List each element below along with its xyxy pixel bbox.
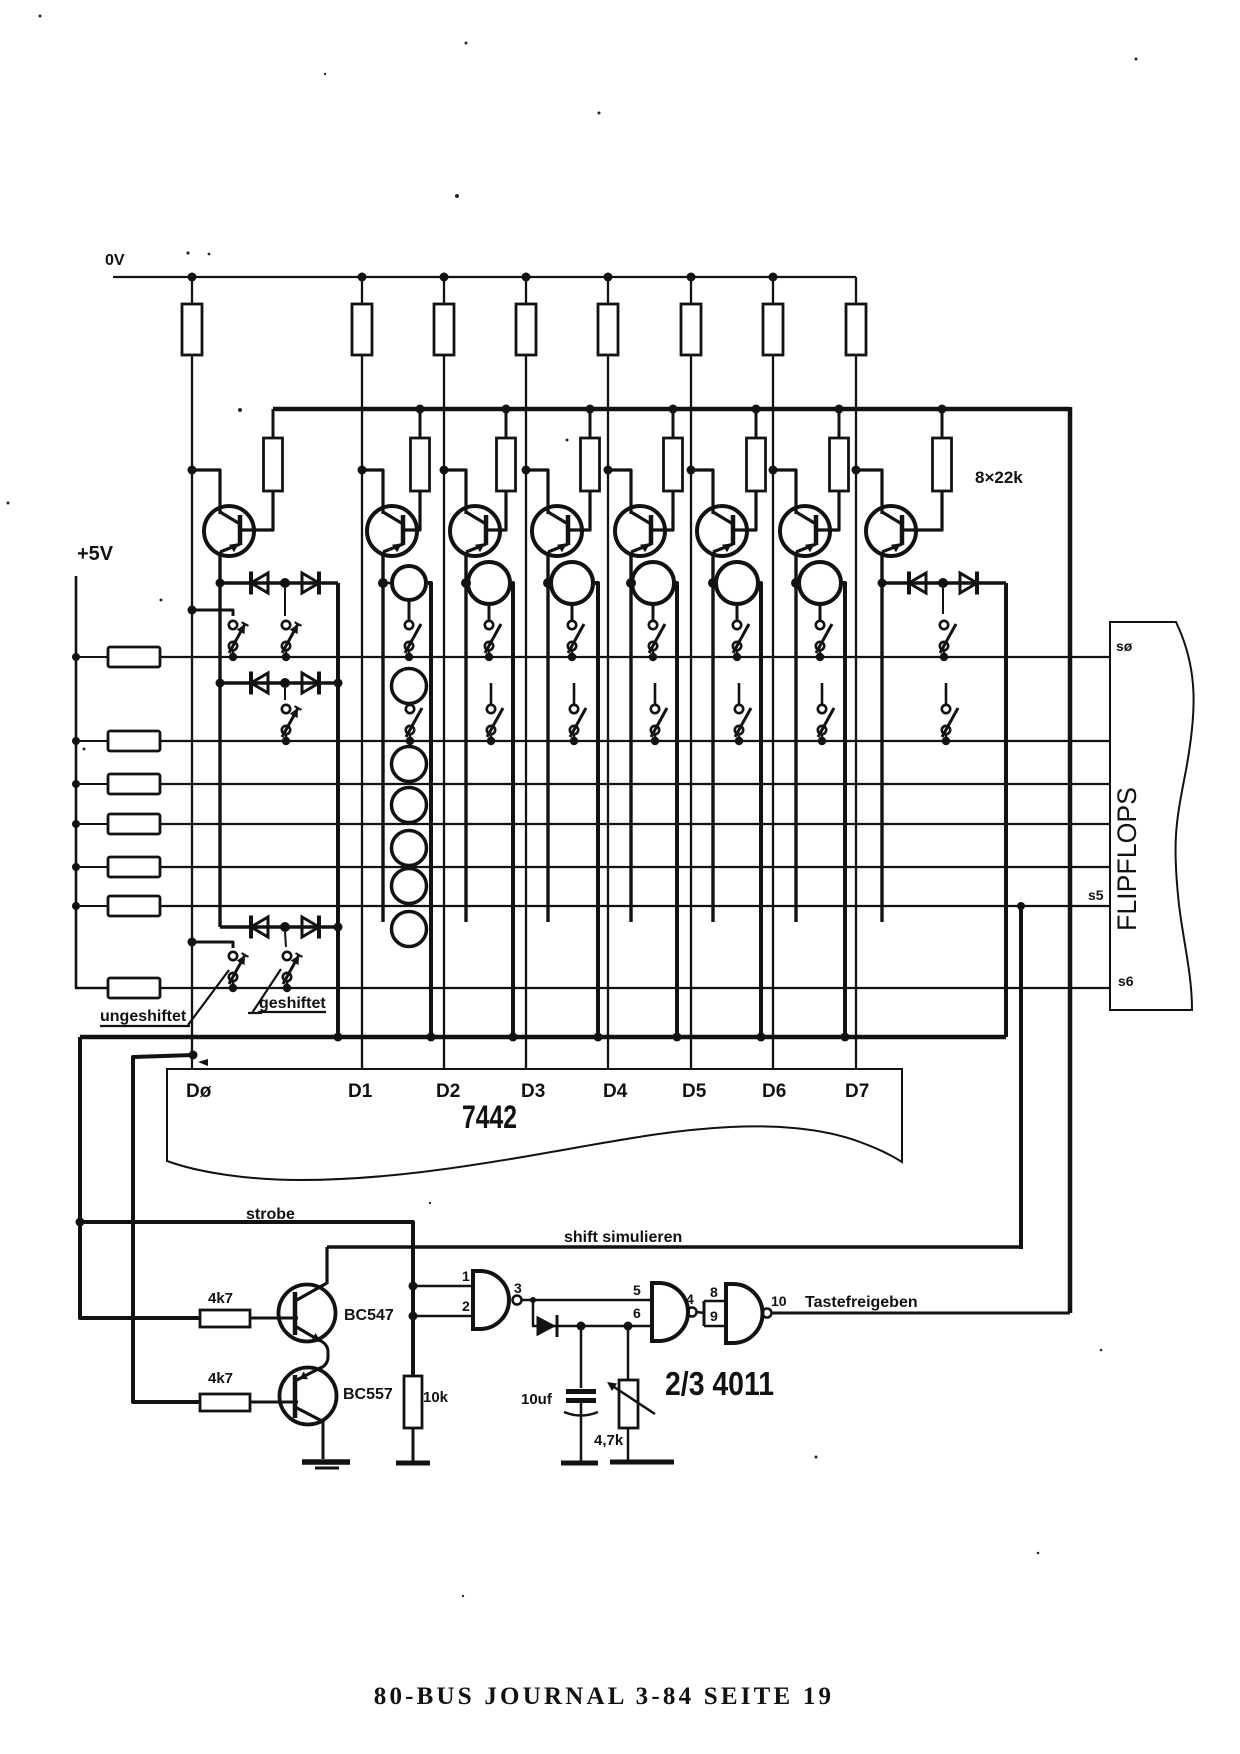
svg-text:+5V: +5V xyxy=(77,543,114,565)
junction 0V rail / col D3 xyxy=(522,273,531,282)
net label 0V xyxy=(105,252,125,269)
pin label 1 xyxy=(462,1268,470,1284)
switch S4a (key D4 to row s0) xyxy=(649,604,665,661)
svg-text:ungeshiftet: ungeshiftet xyxy=(100,1008,187,1025)
label strobe xyxy=(246,1206,295,1223)
switch S7b (to row 2) xyxy=(942,683,958,745)
key circle K4 (col D4) xyxy=(626,562,674,604)
switch shift S0c (junction to row 2) xyxy=(282,688,302,745)
switch S1a (key D1 to row s0) xyxy=(405,600,421,661)
switch shift S0d (junction to row s6) xyxy=(283,932,303,992)
wire emitter line col D1 xyxy=(381,552,384,922)
nand gate U1c pins 8-9-10 xyxy=(726,1284,772,1343)
wire key column right line D4 xyxy=(672,583,677,1037)
junction bottom common xyxy=(673,1033,682,1042)
junction 0V rail / col D4 xyxy=(604,273,613,282)
svg-text:3: 3 xyxy=(514,1280,522,1296)
wire emitter line col D2 xyxy=(464,552,467,922)
diode pair row1 (right shift block) xyxy=(878,572,1007,595)
junction bottom common xyxy=(594,1033,603,1042)
resistor row feed R31 (row row2) xyxy=(72,731,160,751)
resistor 22k R24 (col D4) xyxy=(664,409,683,530)
transistor Q5 (col D4) xyxy=(604,466,674,557)
resistor row feed R35 (row s5) xyxy=(72,896,160,916)
net label s0 xyxy=(1116,638,1133,654)
switch S5b (key D5 to row 2) xyxy=(735,683,751,745)
svg-text:80-BUS JOURNAL 3-84 SEITE 19: 80-BUS JOURNAL 3-84 SEITE 19 xyxy=(374,1683,835,1710)
svg-text:shift simulieren: shift simulieren xyxy=(564,1229,682,1246)
wire emitter line col D4 xyxy=(629,552,632,922)
junction bottom common xyxy=(427,1033,436,1042)
diode pair row3 (shift block bottom) xyxy=(220,916,343,939)
ground (potentiometer) xyxy=(610,1460,674,1465)
svg-text:D3: D3 xyxy=(521,1081,545,1102)
svg-text:10: 10 xyxy=(771,1293,787,1309)
wire key column right line D2 xyxy=(508,583,513,1037)
wire tap D0 lower xyxy=(188,938,234,949)
label ungeshiftet xyxy=(100,970,229,1026)
resistor column pull-down R8 (col D7) xyxy=(846,277,866,1069)
switch S1b (key D1 to row 2) xyxy=(406,705,422,745)
switch S6b (key D6 to row 2) xyxy=(818,683,834,745)
wire row line s5 xyxy=(160,905,1110,907)
potentiometer 4,7k xyxy=(607,1326,655,1460)
nand gate U1a pins 1-2-3 xyxy=(413,1271,522,1329)
svg-text:sø: sø xyxy=(1116,638,1133,654)
junction strobe tap xyxy=(76,1218,85,1227)
wire tap D0 upper xyxy=(188,606,234,617)
key circle K6 (col D6) xyxy=(791,562,841,604)
svg-text:10k: 10k xyxy=(423,1389,449,1406)
nand gate U1b pins 5-6-4 xyxy=(652,1283,697,1341)
wire right rail shift block 2 xyxy=(1004,583,1008,1037)
wire s5 to shift simulieren xyxy=(1017,902,1025,1249)
diode D17 (delay) xyxy=(533,1300,652,1337)
junction potentiometer xyxy=(624,1322,633,1331)
decoder 7442 box U2 xyxy=(167,1069,902,1180)
svg-text:4: 4 xyxy=(686,1291,694,1307)
pin label 3 xyxy=(514,1280,522,1296)
pin label D1 xyxy=(348,1081,373,1102)
wire row line row5 xyxy=(160,866,1110,868)
wire emitter line col D3 xyxy=(546,552,549,922)
switch S4b (key D4 to row 2) xyxy=(651,683,667,745)
switch shift S0a (junction to row s0) xyxy=(282,588,302,661)
pin label 6 xyxy=(633,1305,641,1321)
key circle K3 (col D3) xyxy=(543,562,593,604)
transistor BC557 Q10 xyxy=(280,1367,337,1459)
wire row line row2 xyxy=(160,740,1110,742)
junction 0V rail / col D5 xyxy=(687,273,696,282)
pin label 10 xyxy=(771,1293,787,1309)
wire emitter line col D7 xyxy=(880,552,883,922)
wire bus right drop to Tastefreigeben xyxy=(1068,407,1073,1313)
switch S6a (key D6 to row s0) xyxy=(816,604,832,661)
junction bottom common xyxy=(757,1033,766,1042)
svg-text:Tastefreigeben: Tastefreigeben xyxy=(805,1294,918,1311)
junction bottom common xyxy=(509,1033,518,1042)
wire common to BC547 base xyxy=(80,1037,200,1318)
switch S3b (key D3 to row 2) xyxy=(570,683,586,745)
svg-text:9: 9 xyxy=(710,1308,718,1324)
svg-text:0V: 0V xyxy=(105,252,125,269)
switch S5a (key D5 to row s0) xyxy=(733,604,749,661)
net label s6 xyxy=(1118,973,1134,989)
pin label 5 xyxy=(633,1282,641,1298)
diode pair row2 (shift block middle) xyxy=(216,672,343,695)
junction bus / R25 xyxy=(752,405,761,414)
transistor Q4 (col D3) xyxy=(522,466,591,557)
transistor Q7 (col D6) xyxy=(769,466,840,557)
svg-text:geshiftet: geshiftet xyxy=(259,995,326,1012)
svg-text:D4: D4 xyxy=(603,1081,628,1102)
wire +5V vertical xyxy=(76,576,108,988)
junction bottom common xyxy=(334,1033,343,1042)
svg-text:7442: 7442 xyxy=(462,1099,517,1135)
switch S2b (key D2 to row 2) xyxy=(487,683,503,745)
key circles stack col D1 xyxy=(392,669,427,947)
svg-text:D1: D1 xyxy=(348,1081,373,1102)
net label +5V xyxy=(77,543,114,565)
resistor column pull-down R1 (col D0) xyxy=(182,277,202,1069)
resistor 4k7 (BC547 base) xyxy=(200,1290,298,1327)
junction 0V rail / col D1 xyxy=(358,273,367,282)
svg-text:5: 5 xyxy=(633,1282,641,1298)
diode pair row1 (shift block left) xyxy=(216,572,339,595)
wire 22k supply bus xyxy=(273,407,1070,412)
svg-text:2/3 4011: 2/3 4011 xyxy=(665,1365,774,1402)
transistor BC547 Q9 xyxy=(279,1247,336,1342)
wire emitters junction xyxy=(319,1340,328,1368)
pin label D2 xyxy=(436,1081,460,1102)
svg-text:1: 1 xyxy=(462,1268,470,1284)
junction bus / R23 xyxy=(586,405,595,414)
pin label 2 xyxy=(462,1298,470,1314)
wire key column right line D3 xyxy=(591,583,598,1037)
svg-text:BC547: BC547 xyxy=(344,1307,394,1324)
junction bus / R22 xyxy=(502,405,511,414)
wire gate2 out to gate3 in xyxy=(697,1301,726,1326)
svg-text:10uf: 10uf xyxy=(521,1391,553,1408)
wire row line row3 xyxy=(160,783,1110,785)
resistor 22k R25 (col D5) xyxy=(747,409,766,530)
junction bus / R26 xyxy=(835,405,844,414)
svg-text:Dø: Dø xyxy=(186,1081,212,1102)
wire row line row4 xyxy=(160,823,1110,825)
junction strobe / gate input 2 xyxy=(409,1312,418,1321)
pin label 9 xyxy=(710,1308,718,1324)
wire shift simulieren xyxy=(327,1245,1021,1249)
wire gate1 out to gate2 in5 xyxy=(522,1297,652,1303)
label BC557 xyxy=(343,1386,393,1403)
wire key column right line D5 xyxy=(756,583,761,1037)
footer page text xyxy=(374,1683,835,1710)
resistor row feed R30 (row s0) xyxy=(72,647,160,667)
junction bus / R24 xyxy=(669,405,678,414)
resistor row feed R33 (row row4) xyxy=(72,814,160,834)
key circle K5 (col D5) xyxy=(708,562,758,604)
wire emitter line col D5 xyxy=(711,552,714,922)
svg-text:D7: D7 xyxy=(845,1081,869,1102)
svg-text:s5: s5 xyxy=(1088,887,1104,903)
resistor 22k R26 (col D6) xyxy=(830,409,849,530)
svg-text:D6: D6 xyxy=(762,1081,786,1102)
value label 8x22k xyxy=(975,468,1023,487)
transistor Q3 (col D2) xyxy=(440,466,507,557)
switch S7a (junction to row s0) xyxy=(940,588,956,661)
svg-text:4k7: 4k7 xyxy=(208,1370,233,1387)
svg-text:2: 2 xyxy=(462,1298,470,1314)
ground (10uF) xyxy=(561,1461,598,1466)
svg-text:4,7k: 4,7k xyxy=(594,1432,624,1449)
pin label D5 xyxy=(682,1081,707,1102)
pin label D& xyxy=(186,1081,212,1102)
svg-text:BC557: BC557 xyxy=(343,1386,393,1403)
wire key column right line D1 xyxy=(428,583,431,1037)
resistor 22k R22 (col D2) xyxy=(497,409,516,530)
resistor column pull-down R6 (col D5) xyxy=(681,277,701,1069)
junction bus / R21 xyxy=(416,405,425,414)
svg-text:s6: s6 xyxy=(1118,973,1134,989)
label Tastefreigeben xyxy=(805,1294,918,1311)
svg-text:D5: D5 xyxy=(682,1081,707,1102)
pin label 4 xyxy=(686,1291,694,1307)
label shift simulieren xyxy=(564,1229,682,1246)
junction 0V rail / col D0 xyxy=(188,273,197,282)
pin label D3 xyxy=(521,1081,545,1102)
svg-text:4k7: 4k7 xyxy=(208,1290,233,1307)
label FLIPFLOPS xyxy=(1112,787,1142,931)
wire 0V rail xyxy=(113,276,856,278)
ground (10k) xyxy=(396,1461,430,1466)
switch shift S0e (tap to row s6) xyxy=(229,952,249,992)
junction capacitor xyxy=(577,1322,586,1331)
wire D0 tap to BC557 xyxy=(133,1051,208,1403)
capacitor 10uF xyxy=(564,1326,598,1461)
value label 4,7k xyxy=(594,1432,624,1449)
junction bottom common xyxy=(841,1033,850,1042)
resistor column pull-down R5 (col D4) xyxy=(598,277,618,1069)
resistor 10k xyxy=(404,1376,449,1461)
flipflops box U3 xyxy=(1110,622,1194,1010)
switch shift S0b (tap to row s0) xyxy=(229,621,249,661)
svg-text:D2: D2 xyxy=(436,1081,460,1102)
label BC547 xyxy=(344,1307,394,1324)
resistor row feed R36 (row s6) xyxy=(108,978,160,998)
ground (BC557 collector) xyxy=(302,1462,350,1468)
transistor Q2 (col D1) xyxy=(358,466,421,557)
label geshiftet xyxy=(248,969,326,1013)
pin label D6 xyxy=(762,1081,786,1102)
resistor row feed R34 (row row5) xyxy=(72,857,160,877)
wire Tastefreigeben xyxy=(772,1312,1070,1315)
resistor column pull-down R3 (col D2) xyxy=(434,277,454,1069)
wire row line s0 xyxy=(160,656,1110,658)
svg-text:FLIPFLOPS: FLIPFLOPS xyxy=(1112,787,1142,931)
resistor 22k R20 (col D0) xyxy=(264,409,283,530)
wire strobe xyxy=(80,1222,413,1376)
wire key column right line D6 xyxy=(839,583,845,1037)
wire bottom key common line xyxy=(80,1035,1006,1040)
junction strobe / gate input 1 xyxy=(409,1282,418,1291)
resistor 22k R23 (col D3) xyxy=(581,409,600,530)
transistor Q1 (col D0) xyxy=(188,466,274,557)
resistor column pull-down R2 (col D1) xyxy=(352,277,372,1069)
pin label D7 xyxy=(845,1081,869,1102)
switch S3a (key D3 to row s0) xyxy=(568,604,584,661)
wire emitter line col D0 xyxy=(218,552,221,927)
label 7442 xyxy=(462,1099,517,1135)
value label 10uf xyxy=(521,1391,553,1408)
switch S2a (key D2 to row s0) xyxy=(485,604,501,661)
resistor 4k7 (BC557 base) xyxy=(200,1370,298,1411)
junction bus / R27 xyxy=(938,405,947,414)
label 2/3 4011 xyxy=(665,1365,774,1402)
resistor 22k R27 (col D7) xyxy=(933,409,952,530)
key circle K2 (col D2) xyxy=(461,562,510,604)
key circle K1 (col D1) xyxy=(378,566,426,600)
transistor Q8 (col D7) xyxy=(852,466,943,557)
svg-text:8×22k: 8×22k xyxy=(975,468,1023,487)
wire row line s6 xyxy=(160,987,1110,989)
resistor column pull-down R4 (col D3) xyxy=(516,277,536,1069)
transistor Q6 (col D5) xyxy=(687,466,757,557)
net label s5 xyxy=(1088,887,1104,903)
pin label D4 xyxy=(603,1081,628,1102)
junction 0V rail / col D2 xyxy=(440,273,449,282)
wire right rail shift block xyxy=(336,583,340,1037)
wire emitter line col D6 xyxy=(794,552,797,922)
pin label 8 xyxy=(710,1284,718,1300)
svg-text:8: 8 xyxy=(710,1284,718,1300)
junction 0V rail / col D6 xyxy=(769,273,778,282)
resistor column pull-down R7 (col D6) xyxy=(763,277,783,1069)
resistor row feed R32 (row row3) xyxy=(72,774,160,794)
resistor 22k R21 (col D1) xyxy=(411,409,430,530)
svg-text:6: 6 xyxy=(633,1305,641,1321)
